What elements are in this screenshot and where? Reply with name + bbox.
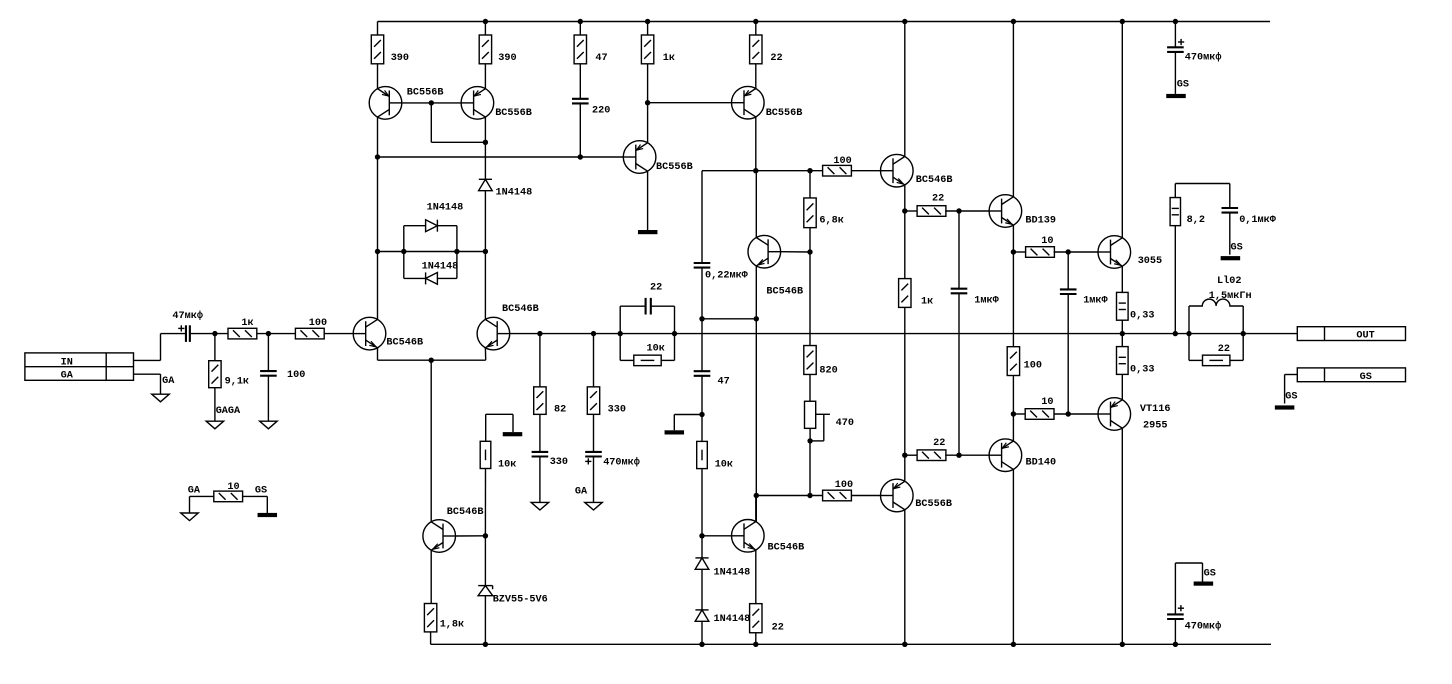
wire: loop bottom left <box>404 277 426 279</box>
transistor Q1 BC556B (mirror left) <box>369 87 402 120</box>
wire: BD140 collector to bottom rail <box>1012 469 1014 644</box>
wire: R 100 to lower node <box>1012 375 1014 414</box>
svg-text:1к: 1к <box>921 297 933 308</box>
svg-text:47: 47 <box>718 376 730 387</box>
wire: bias rail left <box>702 170 823 172</box>
wire: bottom rail to C 470мкф <box>1174 620 1176 645</box>
svg-text:22: 22 <box>650 283 662 294</box>
wire: GS connector to ground <box>1285 374 1298 376</box>
junction: top rail / Q10 <box>902 19 907 24</box>
resistor 1к (input) <box>228 328 257 339</box>
wire: BD139 emitter down <box>1012 225 1014 252</box>
resistor 10 (upper) <box>1026 247 1055 258</box>
svg-text:1N4148: 1N4148 <box>496 188 533 199</box>
ground GS (zobel) <box>1221 256 1241 260</box>
svg-text:1N4148: 1N4148 <box>714 568 751 579</box>
svg-text:10к: 10к <box>498 459 516 470</box>
connector OUT <box>1297 327 1405 341</box>
trimmer 470 <box>805 401 816 428</box>
wire: fb loop left vertical <box>619 306 621 360</box>
junction: link right / VAS emitter <box>754 316 759 321</box>
junction: main / L right <box>1241 331 1246 336</box>
resistor 10 (lower) <box>1025 409 1054 420</box>
svg-text:330: 330 <box>550 457 568 468</box>
resistor 10к (feedback) <box>634 355 661 366</box>
junction: bottom rail / C 470мкф <box>1173 642 1178 647</box>
junction: mirror bases <box>429 100 434 105</box>
svg-text:BC556B: BC556B <box>407 88 444 99</box>
wire: L loop bottom right <box>1230 359 1243 361</box>
wire: node to R 330 <box>593 334 595 387</box>
diode 1N4148 (bias string 1) <box>695 558 709 569</box>
junction: trimmer bottom / tap <box>807 438 812 443</box>
resistor 820 <box>804 346 816 375</box>
svg-text:220: 220 <box>592 106 610 117</box>
wire: GA pin <box>134 373 161 375</box>
wire: C 0,22 down to link <box>701 268 703 319</box>
ground GA (C 330) <box>531 502 549 510</box>
transistor VT116 2955 (output PNP) <box>1098 398 1131 431</box>
junction: pair loop right <box>454 249 459 254</box>
svg-text:IN: IN <box>61 357 73 368</box>
wire: Q11 collector to bottom rail <box>904 510 906 645</box>
capacitor 0,1мкФ <box>1222 208 1239 213</box>
svg-text:GA: GA <box>188 485 201 496</box>
capacitor 47 <box>694 371 711 376</box>
capacitor 22 (feedback) <box>646 298 651 315</box>
ground GA (C 100) <box>260 421 278 429</box>
svg-text:9,1к: 9,1к <box>225 377 249 388</box>
plus mark C 470мкф <box>585 458 591 464</box>
wire: gnd branch drop <box>673 415 675 431</box>
svg-text:0,1мкФ: 0,1мкФ <box>1239 215 1277 226</box>
wire: node to R 82 <box>539 334 541 387</box>
svg-text:820: 820 <box>819 366 837 377</box>
svg-text:470мкф: 470мкф <box>1185 51 1222 64</box>
ground GA (legend) <box>181 513 199 521</box>
svg-text:10: 10 <box>1041 236 1053 247</box>
ground GS (top cap) <box>1166 94 1186 98</box>
junction: lower driver node <box>902 453 907 458</box>
resistor 100 (input series) <box>295 328 324 339</box>
wire: 10к top branch <box>485 414 487 441</box>
wire: loop right down <box>456 252 458 279</box>
svg-text:1к: 1к <box>663 53 675 64</box>
wire: D1 to D2 <box>701 569 703 610</box>
wire: Q6/Q7 base line <box>648 102 732 104</box>
capacitor 220 <box>572 99 589 104</box>
junction: R 1к / Q7 base line <box>645 100 650 105</box>
resistor 100 (lower driver base) <box>823 490 852 501</box>
wire: GA drop <box>189 496 191 513</box>
wire: lower bias rail <box>756 495 823 497</box>
wire: D2 to bottom rail <box>701 621 703 644</box>
plus mark C 470мкф top <box>1178 39 1184 45</box>
wire: C 220 to VAS base rail <box>579 103 581 157</box>
wire: R 0,33 to 2955 emitter <box>1121 374 1123 399</box>
wire: IN riser up to signal line <box>160 334 162 361</box>
svg-text:8,2: 8,2 <box>1187 215 1205 226</box>
wire: R 1к across main to lower node <box>904 307 906 455</box>
wire: rail to Q10 collector <box>904 22 906 157</box>
resistor 82 <box>534 387 546 415</box>
wire: R 10 to 3055 base <box>1054 251 1098 253</box>
resistor 8,2 <box>1170 198 1180 226</box>
wire: R 10к down to Q9 base node <box>701 469 703 536</box>
resistor 22 (top) <box>750 35 762 64</box>
inductor Ll02 1,5мкГн <box>1189 299 1243 306</box>
wire: diode to node <box>484 191 486 252</box>
svg-text:1,5мкГн: 1,5мкГн <box>1209 291 1252 302</box>
wire: R 8,2 top <box>1174 184 1176 198</box>
wire: GA to R 10 <box>190 495 215 497</box>
capacitor 470мкф (top rail) <box>1167 47 1184 52</box>
wire: Q9 collector up <box>755 496 757 522</box>
svg-text:BC546B: BC546B <box>447 507 484 518</box>
svg-text:390: 390 <box>391 53 409 64</box>
svg-text:82: 82 <box>554 404 566 415</box>
junction: main / zobel <box>1173 331 1178 336</box>
junction: main / R82 chain <box>537 331 542 336</box>
resistor 0,33 (lower) <box>1117 347 1129 375</box>
svg-text:6,8к: 6,8к <box>819 216 843 227</box>
svg-text:BC546B: BC546B <box>766 286 803 297</box>
wire: node down to R 9,1к <box>214 334 216 361</box>
wire: bias rail corner down <box>701 171 703 263</box>
wire: loop top left <box>404 225 426 227</box>
wire: Q11 emitter up <box>904 455 906 481</box>
wire: R 1к to node <box>257 333 296 335</box>
plus mark C1 <box>178 325 184 331</box>
junction: Q7 / bias rail <box>753 168 758 173</box>
wire: C 47 down <box>701 376 703 442</box>
wire: node down to Q4 collector <box>484 252 486 320</box>
transistor Q6 BC556B <box>623 141 656 174</box>
svg-text:OUT: OUT <box>1356 330 1374 341</box>
wire: VAS base rail <box>378 156 624 158</box>
ground GS (bottom cap) <box>1194 582 1214 586</box>
wire: loop top right <box>437 225 457 227</box>
transistor Q2 BC556B (mirror right) <box>461 87 494 120</box>
wire: base node to R 820 <box>809 252 811 346</box>
wire: Q3 emitter <box>377 348 379 360</box>
svg-text:100: 100 <box>287 370 305 381</box>
svg-text:GA: GA <box>162 376 175 387</box>
wire: Q9 base wire <box>702 535 732 537</box>
wire: IN pin to riser <box>134 359 161 361</box>
svg-text:GA: GA <box>61 371 74 382</box>
junction: column / lower bias rail <box>754 493 759 498</box>
resistor 22 (bias) <box>750 604 762 633</box>
wire: R 1к down <box>647 64 649 143</box>
wire: C to GS ground <box>1174 52 1176 94</box>
wire: Q8 emitter down <box>755 266 757 319</box>
resistor 0,33 (upper) <box>1117 292 1129 320</box>
wire: base link to right collector <box>431 141 485 143</box>
wire: Q8 base to divider <box>781 251 810 253</box>
wire: trimmer bottom <box>809 428 811 441</box>
transistor Q3 BC546B (input left) <box>353 317 386 350</box>
resistor 6,8к <box>804 198 816 228</box>
wire: R 10 to GS <box>242 495 267 497</box>
wire: tail down to Q5 <box>430 360 432 522</box>
wire: link down to C 0,1мкФ <box>1229 184 1231 209</box>
wire: link to VAS emitter <box>702 318 756 320</box>
svg-text:1N4148: 1N4148 <box>714 614 751 625</box>
svg-text:47: 47 <box>595 53 607 64</box>
svg-text:470мкф: 470мкф <box>1185 620 1222 633</box>
junction: lower 10 node <box>1011 411 1016 416</box>
wire: R 100 to Q11 base <box>851 495 880 497</box>
wire: C1 to node <box>190 333 229 335</box>
wire: BD139 node down to R 100 <box>1012 252 1014 347</box>
wire: C 1мкФ across main down <box>958 293 960 455</box>
wire: zobel top link <box>1175 183 1230 185</box>
wire: C up to corner <box>1174 563 1176 614</box>
wire: Q8 collector up <box>755 171 757 238</box>
wire: R 10 to 2955 base <box>1054 413 1098 415</box>
wire: rail to R 390 right <box>484 22 486 36</box>
transistor Q8 BC546B (VAS) <box>748 235 781 268</box>
svg-text:BC556B: BC556B <box>495 108 532 119</box>
diode 1N4148 (bias string 2) <box>695 610 709 621</box>
capacitor 0,22мкФ <box>694 263 711 268</box>
wire: R 10к to base node <box>484 469 486 536</box>
svg-text:GS: GS <box>255 485 267 496</box>
wire: C 100 to ground <box>267 376 269 422</box>
capacitor 330 <box>532 452 549 457</box>
svg-text:1к: 1к <box>241 318 253 329</box>
resistor 1к (driver) <box>899 279 911 308</box>
wire: loop right up <box>456 226 458 252</box>
wire: node to C 1мкФ right <box>1067 252 1069 289</box>
junction: top rail / 3055 <box>1120 19 1125 24</box>
junction: R10 / C 1мкФ right <box>1066 249 1071 254</box>
junction: base node / zener <box>483 533 488 538</box>
svg-text:GS: GS <box>1231 243 1243 254</box>
wire: positive supply top rail <box>378 21 1271 23</box>
wire: R 1,8к to bottom rail corner <box>430 632 432 644</box>
transistor Q10 BC546B (upper driver) <box>881 154 914 187</box>
junction: BD139 emitter node <box>1011 249 1016 254</box>
junction: pair loop left <box>401 249 406 254</box>
wire: pair rail <box>378 251 486 253</box>
wire: node to D1 <box>701 536 703 558</box>
wire: rail to BD139 collector <box>1012 22 1014 197</box>
svg-text:GA: GA <box>575 486 588 497</box>
wire: R 100 to Q3 base <box>324 333 353 335</box>
junction: top rail / C 470мкф <box>1173 19 1178 24</box>
ground GS (left 10к) <box>503 432 523 436</box>
resistor 390 (right) <box>479 35 491 64</box>
wire: C 0,1мкФ to ground <box>1229 213 1231 255</box>
junction: Q9 base node <box>699 533 704 538</box>
wire: gnd branch left <box>674 414 702 416</box>
wire: Q5 base wire <box>456 535 486 537</box>
resistor 1,8к <box>424 604 436 632</box>
svg-text:1N4148: 1N4148 <box>427 203 464 214</box>
wire: signal line to C1 <box>161 333 186 335</box>
resistor 47 <box>574 35 586 64</box>
junction: bias rail / R 6,8к <box>807 168 812 173</box>
resistor 22 (lower out) <box>917 450 946 461</box>
wire: fb bottom left <box>620 359 634 361</box>
junction: link / Q2 collector <box>483 140 488 145</box>
svg-text:330: 330 <box>608 404 626 415</box>
wire: 2955 collector to bottom rail <box>1121 428 1123 644</box>
ground GS (right 10к) <box>665 430 685 434</box>
wire: rail to C 470мкф top <box>1174 22 1176 48</box>
wire: node to R 10 lower <box>1013 413 1025 415</box>
wire: R 390 to Q1 emitter <box>377 64 379 89</box>
plus mark C 470мкф bottom <box>1178 605 1184 611</box>
capacitor 470мкф (bottom rail) <box>1167 614 1184 619</box>
svg-text:BD139: BD139 <box>1025 215 1056 226</box>
wire: 3055 emitter to R 0,33 <box>1121 266 1123 292</box>
wire: loop left up <box>403 226 405 252</box>
wire: node to C 1мкФ <box>958 211 960 289</box>
wire: R 9,1к to ground <box>214 388 216 422</box>
wire: Q2 collector down <box>484 117 486 179</box>
transistor 3055 (output NPN) <box>1098 236 1131 269</box>
wire: output node to R 8,2 <box>1174 226 1176 334</box>
svg-text:100: 100 <box>835 480 853 491</box>
junction: column / diode pair left rail <box>375 249 380 254</box>
resistor 390 (left) <box>371 35 383 64</box>
wire: R 22 to BD139 base <box>945 210 989 212</box>
svg-text:10к: 10к <box>647 344 665 355</box>
wire: R 6,8к to base node <box>809 228 811 252</box>
wire: L loop bottom left <box>1189 359 1203 361</box>
wire: fb loop right vertical <box>674 306 676 360</box>
wire: mirror base drop <box>430 103 432 142</box>
wire: trimmer tap <box>816 413 830 415</box>
junction: top rail / R 1к <box>645 19 650 24</box>
resistor 9,1к <box>209 361 221 388</box>
ground GA (input connector) <box>152 394 170 402</box>
wire: R 390 to Q2 emitter <box>484 64 486 89</box>
wire: Q9 emitter to R 22 <box>755 550 757 604</box>
svg-text:BD140: BD140 <box>1026 458 1057 469</box>
svg-text:1N4148: 1N4148 <box>422 262 459 273</box>
capacitor 100 (input) <box>260 371 277 376</box>
transistor Q7 BC556B <box>732 86 765 119</box>
wire: tap drop <box>823 414 825 441</box>
resistor 100 (upper driver base) <box>823 165 852 176</box>
resistor 10к (left) <box>480 441 491 468</box>
svg-text:BC556B: BC556B <box>915 499 952 510</box>
svg-text:47мкф: 47мкф <box>172 309 203 322</box>
svg-text:0,22мкФ: 0,22мкФ <box>705 270 749 281</box>
resistor 330 <box>587 387 599 415</box>
svg-text:3055: 3055 <box>1138 256 1162 267</box>
wire: GS drop <box>1202 563 1204 582</box>
capacitor 1мкФ (right) <box>1060 289 1077 294</box>
ground GA (C 470мкф) <box>585 502 603 510</box>
wire: 10к gnd branch <box>486 413 513 415</box>
svg-text:BC546B: BC546B <box>916 175 953 186</box>
wire: rail node to R 6,8к <box>809 171 811 198</box>
svg-text:0,33: 0,33 <box>1130 311 1154 322</box>
junction: emitter rail / tail <box>429 358 434 363</box>
transistor Q5 BC546B (tail source) <box>423 520 456 553</box>
junction: divider / lower bias rail <box>807 493 812 498</box>
junction: 2955 / bottom rail <box>1120 642 1125 647</box>
transistor BD140 <box>989 439 1022 472</box>
wire: Q10 emitter down <box>904 185 906 211</box>
junction: Q10 emitter node <box>902 208 907 213</box>
junction: top rail / R 390 right <box>483 19 488 24</box>
svg-text:1мкФ: 1мкФ <box>974 296 999 307</box>
svg-text:1,8к: 1,8к <box>440 619 464 630</box>
svg-text:22: 22 <box>1218 344 1230 355</box>
wire: zener to bottom rail <box>484 596 486 645</box>
svg-text:BC556B: BC556B <box>656 162 693 173</box>
junction: diode / pair rail right <box>483 249 488 254</box>
ground GA (R 9,1к) <box>206 421 224 429</box>
resistor 22 (L damping) <box>1203 355 1230 366</box>
wire: R 22 to bottom rail <box>755 633 757 645</box>
wire: Q5 emitter to R 1,8к <box>430 550 432 603</box>
wire: rail corner to R 390 left <box>377 22 379 36</box>
svg-text:GS: GS <box>1360 372 1372 383</box>
svg-text:GS: GS <box>1285 392 1297 403</box>
wire: Q6 collector to ground <box>647 171 649 230</box>
svg-text:100: 100 <box>309 318 327 329</box>
junction: C 220 / VAS base rail <box>578 154 583 159</box>
svg-text:390: 390 <box>498 53 516 64</box>
junction: top rail / R 22 <box>753 19 758 24</box>
wire: 10к gnd drop <box>512 414 514 432</box>
svg-text:0,33: 0,33 <box>1130 365 1154 376</box>
wire: Q1 collector down <box>377 117 379 157</box>
capacitor 1мкФ (left) <box>951 289 968 294</box>
wire: Q4 emitter <box>484 348 486 360</box>
wire: loop left down <box>403 252 405 279</box>
svg-text:22: 22 <box>932 194 944 205</box>
wire: node to R 10 upper <box>1013 251 1026 253</box>
svg-text:BC546B: BC546B <box>386 337 423 348</box>
wire: tap return <box>810 440 824 442</box>
diode 1N4148 (pair bottom) <box>426 272 438 284</box>
wire: R 22 to BD140 base <box>945 454 989 456</box>
wire: R 820 to trimmer <box>809 374 811 401</box>
wire: node to zener <box>484 536 486 586</box>
wire: GA pin down to ground <box>160 374 162 394</box>
junction: diode string / bottom rail <box>699 642 704 647</box>
capacitor C1 47мкф <box>186 325 190 342</box>
wire: main line right section <box>510 333 1298 335</box>
wire: Q1 collector column down <box>377 157 379 319</box>
junction: main / L left <box>1186 331 1191 336</box>
wire: emitter rail <box>378 359 486 361</box>
resistor 10к (right) <box>697 441 708 468</box>
wire: negative supply bottom rail <box>431 643 1271 645</box>
svg-text:Ll02: Ll02 <box>1217 275 1241 287</box>
wire: R 0,33 to output node <box>1121 320 1123 346</box>
svg-text:470мкф: 470мкф <box>603 455 640 468</box>
wire: R 330 to C 470мкф <box>593 414 595 452</box>
junction: top rail / BD139 <box>1011 19 1016 24</box>
wire: divider down to lower rail <box>809 441 811 496</box>
zener diode BZV55-5V6 <box>478 586 493 596</box>
svg-text:VT116: VT116 <box>1140 404 1171 415</box>
svg-text:2955: 2955 <box>1143 421 1167 432</box>
svg-text:BC546B: BC546B <box>502 304 539 315</box>
junction: top rail / R 47 <box>578 19 583 24</box>
svg-text:100: 100 <box>1024 360 1042 371</box>
wire: C 1мкФ right down <box>1067 294 1069 414</box>
